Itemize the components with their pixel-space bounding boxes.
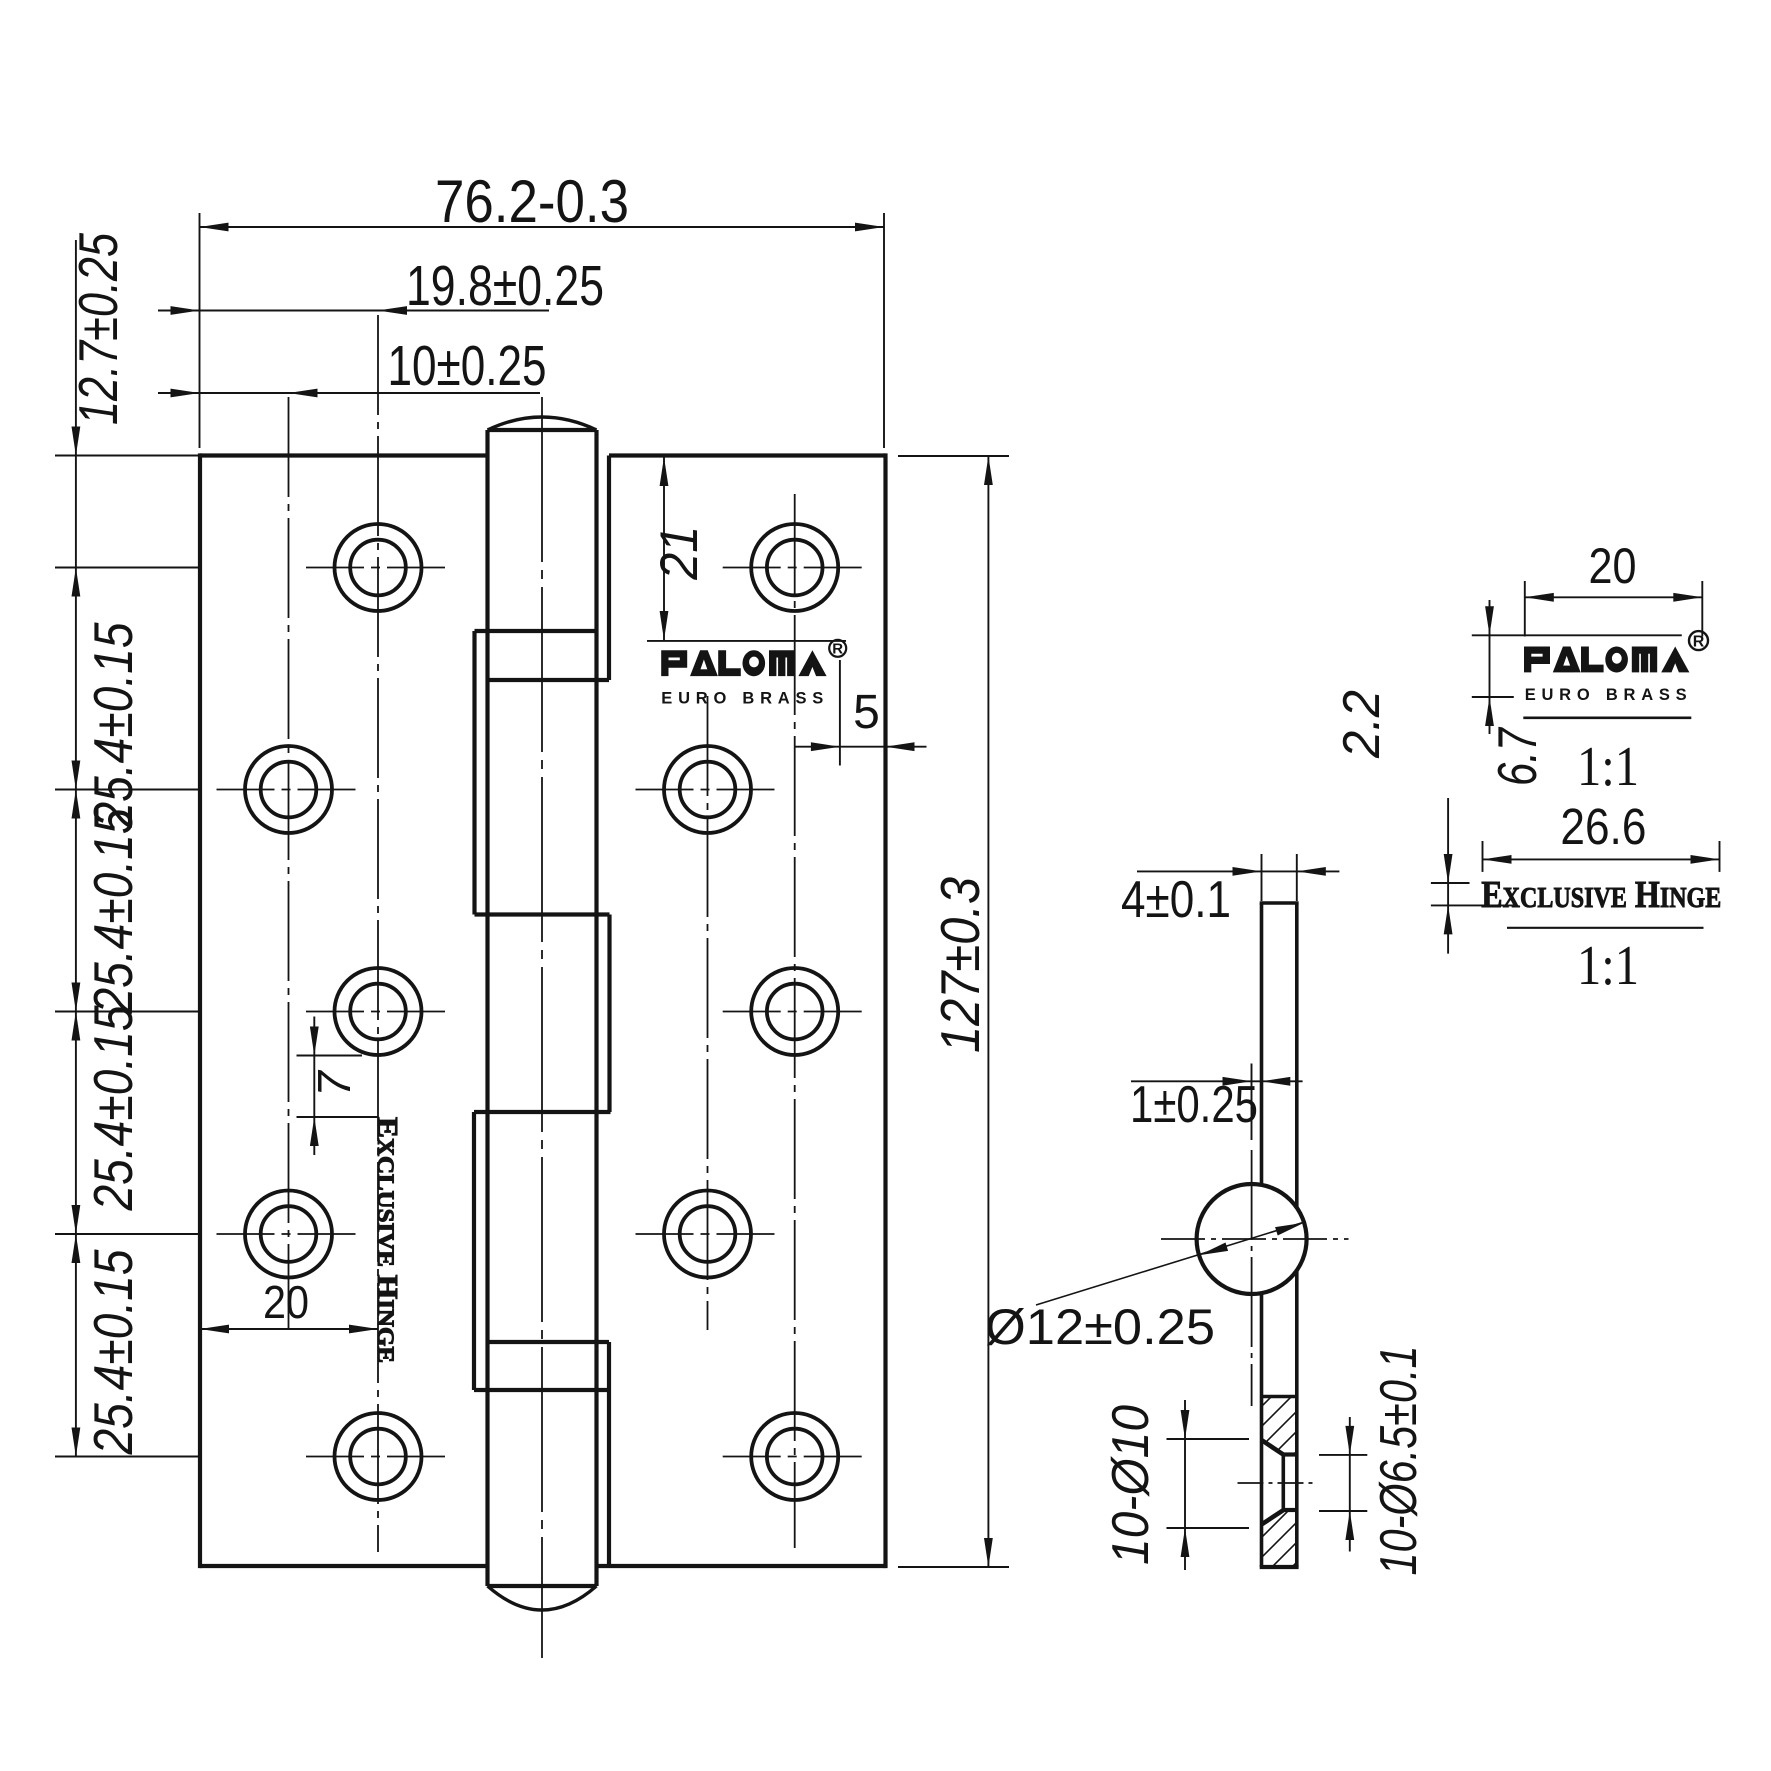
PALOMA (R) symbol (detail view) <box>1689 631 1708 651</box>
left row extension line row4 <box>55 1233 200 1235</box>
hole column centerline A (x=288) <box>288 397 290 1330</box>
svg-text:25.4±0.15: 25.4±0.15 <box>82 1249 144 1455</box>
lower hatched section <box>1159 1230 1629 1620</box>
screw hole row4 left <box>217 1191 361 1278</box>
front view: hinge plate right edge <box>883 453 887 1568</box>
countersink hole wall <box>1282 1455 1286 1511</box>
Exclusive Hinge engraved text (rotated, in plate) <box>371 1117 403 1363</box>
dimension 20 logo width <box>1525 538 1703 637</box>
dimension 5 logo margin <box>795 660 927 766</box>
screw hole row1 left <box>306 524 450 611</box>
svg-text:Ø12±0.25: Ø12±0.25 <box>985 1299 1215 1355</box>
svg-text:EXCLUSIVE HINGE: EXCLUSIVE HINGE <box>371 1117 403 1363</box>
svg-text:5: 5 <box>853 686 880 739</box>
front view: hinge plate bottom edge <box>200 1564 886 1568</box>
left leaf knuckle step lower <box>472 1112 476 1390</box>
dimension 1±0.25 pin head protrusion <box>1130 1064 1303 1141</box>
dimension 7 text offset (rotated) <box>297 1017 378 1156</box>
knuckle joint line 6 <box>474 1388 609 1392</box>
svg-text:26.6: 26.6 <box>1560 798 1646 855</box>
svg-text:7: 7 <box>308 1070 360 1097</box>
knuckle joint line 5 <box>488 1340 610 1344</box>
screw hole row3 left <box>306 968 450 1055</box>
screw hole row5 left <box>306 1413 450 1500</box>
scale label 1:1 (logo) <box>1577 736 1639 798</box>
dimension 19.8±0.25 hole column B offset <box>158 254 604 318</box>
hinge pin bottom cap <box>488 1586 597 1610</box>
dimension 76.2-0.3 overall width <box>200 168 885 448</box>
svg-text:R: R <box>1693 634 1705 651</box>
PALOMA (R) symbol (in plate) <box>829 640 846 658</box>
dimension 2.2 text (rotated) <box>1333 690 1391 759</box>
svg-text:10-Ø10: 10-Ø10 <box>1102 1405 1160 1565</box>
pin knob vertical centerline <box>1251 1150 1253 1406</box>
dimension 4±0.1 plate thickness <box>1121 854 1339 929</box>
left row extension line plate top <box>55 455 200 457</box>
dimension 10-Ø6.5±0.1 through hole (rotated) <box>1319 1346 1428 1576</box>
countersink hole centerline <box>1238 1482 1316 1484</box>
Exclusive Hinge text (detail view) <box>1481 874 1721 916</box>
Exclusive Hinge underline rule <box>1507 927 1704 929</box>
knuckle joint line 3 <box>475 912 610 916</box>
right leaf cutout edge bottom <box>607 1342 611 1566</box>
knuckle joint line 1 <box>475 629 597 633</box>
dimension 6.7 logo height (rotated) <box>1472 600 1548 786</box>
svg-text:25.4±0.15: 25.4±0.15 <box>82 1005 144 1211</box>
dimension 12.7±0.25 first row offset (rotated) <box>67 233 129 425</box>
dimension 10-Ø10 countersink (rotated) <box>1102 1400 1249 1570</box>
upper hatched section <box>1108 1230 1518 1560</box>
side view: pin knob circle <box>1197 1184 1307 1294</box>
dimension 127±0.3 overall height (rotated) <box>898 456 1009 1567</box>
screw hole row3 right <box>723 968 867 1055</box>
screw hole row5 right <box>723 1413 867 1500</box>
svg-text:1:1: 1:1 <box>1577 736 1639 798</box>
hinge pin left edge <box>485 430 489 1586</box>
svg-text:1±0.25: 1±0.25 <box>1130 1076 1258 1134</box>
svg-text:10±0.25: 10±0.25 <box>388 334 547 398</box>
hinge pin centerline <box>541 397 543 1658</box>
dimension 26.6 text width <box>1483 798 1720 872</box>
right leaf cutout edge top <box>607 456 611 681</box>
screw hole row1 right <box>723 524 867 611</box>
logo underline rule <box>1523 716 1691 719</box>
svg-text:127±0.3: 127±0.3 <box>929 877 991 1053</box>
dimension 25.4±0.15 row pitch labels (rotated) <box>82 622 144 1455</box>
EURO BRASS text (detail view) <box>1525 686 1687 704</box>
svg-text:2.2: 2.2 <box>1333 690 1391 759</box>
svg-text:25.4±0.15: 25.4±0.15 <box>82 622 144 828</box>
svg-text:25.4±0.15: 25.4±0.15 <box>82 808 144 1014</box>
side view: plate bar left edge <box>1260 903 1264 1567</box>
pin knob horizontal centerline <box>1161 1238 1349 1240</box>
dimension 10±0.25 hole column A offset <box>158 334 547 398</box>
screw hole row2 left <box>217 746 361 833</box>
screw hole row4 right <box>636 1191 780 1278</box>
hinge pin top cap <box>488 417 597 430</box>
front view: hinge plate left edge <box>198 453 202 1568</box>
svg-text:4±0.1: 4±0.1 <box>1121 871 1231 929</box>
knuckle joint line 4 <box>474 1110 611 1114</box>
knuckle joint line 2 <box>488 678 610 682</box>
dimension 20 hole offset (bottom left) <box>200 1276 378 1333</box>
dimension 2.2 tick marks for text height <box>1431 798 1515 954</box>
left row extension line row2 <box>55 789 200 791</box>
left row extension line row1 <box>55 567 200 569</box>
svg-text:R: R <box>832 641 843 658</box>
leader line for Ø12 dimension <box>1036 1222 1306 1306</box>
svg-text:6.7: 6.7 <box>1486 726 1548 786</box>
logo top extension line <box>1472 634 1682 636</box>
dimension text Ø12±0.25 <box>985 1299 1215 1355</box>
dimension 21 logo offset (rotated) <box>647 456 846 641</box>
svg-text:EURO BRASS: EURO BRASS <box>1525 686 1687 704</box>
side view: plate bar top edge <box>1260 901 1299 905</box>
screw hole row2 right <box>636 746 780 833</box>
hole column centerline B (x=378) <box>377 315 379 1552</box>
svg-text:19.8±0.25: 19.8±0.25 <box>406 254 604 318</box>
left leaf knuckle step upper <box>472 631 476 915</box>
svg-text:EURO BRASS: EURO BRASS <box>661 690 823 708</box>
side view: plate bar bottom edge <box>1260 1565 1299 1569</box>
svg-text:20: 20 <box>1589 538 1637 594</box>
hinge pin right edge <box>594 430 598 1586</box>
PALOMA logo (in plate) <box>661 650 826 676</box>
EURO BRASS text (in plate) <box>661 690 823 708</box>
front view: hinge plate top edge <box>200 453 886 457</box>
left row extension line row5 <box>55 1456 200 1458</box>
svg-text:10-Ø6.5±0.1: 10-Ø6.5±0.1 <box>1370 1346 1428 1576</box>
left row extension line row3 <box>55 1011 200 1013</box>
hole column centerline D (x=795) <box>794 494 796 1548</box>
left dimension chain line <box>75 240 77 1457</box>
right leaf cutout edge middle <box>607 915 611 1113</box>
PALOMA logo (detail view) <box>1524 647 1689 673</box>
svg-text:1:1: 1:1 <box>1577 935 1639 997</box>
svg-text:76.2-0.3: 76.2-0.3 <box>435 168 629 235</box>
svg-text:20: 20 <box>263 1276 309 1328</box>
scale label 1:1 (bottom) <box>1577 935 1639 997</box>
side view: plate bar right edge <box>1295 903 1299 1567</box>
svg-text:21: 21 <box>650 526 709 581</box>
hole column centerline C (x=707) <box>707 696 709 1330</box>
left dimension chain arrows <box>72 427 81 1457</box>
